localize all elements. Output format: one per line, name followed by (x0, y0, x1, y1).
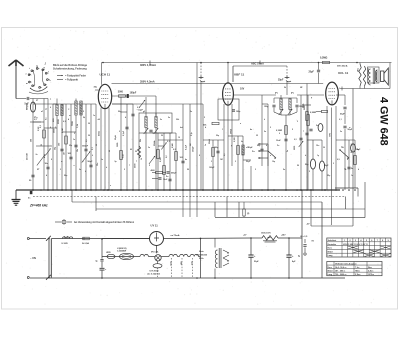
svg-text:5,2km: 5,2km (368, 271, 374, 273)
wire bus right ext (335, 188, 358, 197)
svg-text:50Hz: 50Hz (199, 258, 204, 260)
svg-text:100pF: 100pF (193, 145, 195, 152)
output transformer box (368, 67, 380, 83)
svg-text:0,1µ: 0,1µ (191, 132, 193, 136)
label 360V (102, 61, 358, 67)
heater UCH (169, 254, 177, 266)
wire col x96 (95, 104, 97, 190)
wire grid left UCH (94, 87, 99, 91)
svg-text:(F): (F) (275, 93, 278, 95)
svg-text:0,3M: 0,3M (160, 157, 162, 162)
svg-text:0,5: 0,5 (86, 139, 88, 142)
fuse element (62, 236, 73, 245)
note ZF-Roehren (55, 220, 135, 224)
svg-text:5: 5 (309, 171, 310, 173)
wire choke line (251, 237, 302, 239)
svg-text:0,1µ: 0,1µ (123, 154, 125, 158)
coil L3 (72, 99, 77, 191)
svg-text:0,5M: 0,5M (38, 126, 40, 131)
wire col x48 (45, 99, 50, 191)
wire col x44 (40, 99, 45, 191)
wire speaker bottom line (342, 63, 392, 91)
wire col x190 (189, 104, 191, 217)
svg-text:UY 11: UY 11 (151, 224, 159, 228)
svg-text:~ UN: ~ UN (30, 257, 36, 260)
wire AF top line (233, 63, 287, 83)
resistor 1000 zigzag (363, 66, 368, 86)
resistor at x244 (243, 202, 250, 217)
capacitor 100pF (127, 93, 137, 98)
svg-text:0,3MΩ: 0,3MΩ (310, 112, 316, 114)
svg-text:(F): (F) (291, 93, 294, 95)
svg-text:10: 10 (178, 137, 180, 139)
wire C1 to input (30, 98, 48, 100)
wire col x158 (154, 133, 159, 190)
note text block (53, 64, 88, 82)
wire drop x96 (95, 197, 97, 212)
svg-text:Schaltersteckung, Federung: Schaltersteckung, Federung (53, 68, 87, 71)
svg-text:-2V: -2V (306, 224, 310, 226)
tube U3 UCL11 (326, 82, 339, 105)
wire drop x72 (71, 190, 73, 202)
svg-text:Mittel: Mittel (328, 250, 334, 253)
resistor h 4000 (151, 169, 178, 175)
svg-text:50µF: 50µF (254, 261, 259, 263)
resistor NSF oval (117, 248, 134, 260)
svg-text:UCH 11 UBF 11 UCL 11 UY 11: UCH 11 UBF 11 UCL 11 UY 11 (343, 244, 368, 246)
svg-text:2: 2 (124, 169, 125, 171)
svg-text:1: 1 (248, 147, 249, 149)
wire mains top (30, 236, 150, 241)
transformer secondary (223, 250, 229, 266)
svg-text:3: 3 (60, 169, 61, 171)
svg-text:Mittel: Mittel (328, 270, 333, 273)
wire drop x239 (238, 202, 240, 217)
svg-text:BMA4: BMA4 (26, 103, 29, 110)
svg-text:7: 7 (129, 165, 130, 167)
wire col x127 (123, 104, 129, 190)
svg-text:2: 2 (333, 163, 334, 165)
wire col x262 (257, 95, 264, 166)
wire transformer taps (215, 238, 221, 278)
capacitor 10n mid (159, 178, 169, 181)
wire horiz y104 mid (262, 103, 268, 105)
heater UY (140, 254, 155, 256)
capacitor col x33 (29, 175, 35, 182)
wire col x251 (250, 166, 252, 190)
svg-text:7: 7 (377, 240, 378, 242)
svg-text:0,3: 0,3 (294, 139, 297, 141)
svg-text:10V: 10V (240, 88, 245, 91)
wire antenna to C1 (16, 98, 26, 100)
label 10V (240, 88, 245, 91)
svg-text:1kΩ: 1kΩ (328, 133, 330, 137)
wire horiz x203-218 (203, 139, 224, 141)
wire drop x302 (301, 190, 303, 278)
svg-text:ABC 57mA: ABC 57mA (251, 63, 264, 66)
svg-text:25µ: 25µ (327, 175, 330, 177)
electrolytic 50uF b (319, 140, 329, 190)
svg-text:5000: 5000 (294, 146, 296, 150)
label ZF=468kHz (29, 204, 48, 208)
speaker (381, 68, 389, 85)
svg-text:Kurz: Kurz (328, 267, 332, 269)
wire col x53 (52, 104, 54, 190)
svg-text:2: 2 (83, 161, 84, 163)
wire horiz x158-176 (152, 133, 183, 140)
electrolytic 50uF a (305, 140, 316, 190)
IF2 bottom (274, 112, 297, 190)
wire heater line (102, 256, 140, 258)
wire col x268 (267, 104, 269, 190)
svg-text:50: 50 (161, 135, 163, 137)
svg-text:5: 5 (149, 165, 150, 167)
wire col x133 (131, 104, 134, 190)
wire horiz x115-133 (112, 103, 133, 105)
svg-text:0,1µF: 0,1µF (186, 144, 188, 150)
wire UCL pins (327, 106, 336, 225)
label UBF 11 (234, 73, 245, 77)
svg-text:50kΩ: 50kΩ (209, 139, 211, 144)
wire UY left (102, 238, 150, 240)
antenna (9, 60, 24, 99)
svg-text:= Fußpunkt: = Fußpunkt (65, 79, 78, 82)
svg-text:U (NSF-R): U (NSF-R) (117, 248, 127, 250)
svg-text:0,2: 0,2 (166, 155, 168, 158)
wire horiz x232-243 (228, 135, 243, 137)
svg-text:g2: g2 (143, 111, 145, 113)
svg-text:Si 0,5A: Si 0,5A (82, 242, 89, 245)
component oval antenna coil (26, 102, 36, 112)
wire sub-bus 202 (72, 202, 322, 278)
resistor U oval (106, 252, 115, 259)
svg-text:16,4 - 50,6 m: 16,4 - 50,6 m (335, 266, 347, 269)
coil L2 (58, 104, 63, 190)
svg-text:2: 2 (74, 133, 75, 135)
shield box UBF (218, 99, 239, 120)
svg-text:50: 50 (297, 165, 299, 167)
svg-text:45kΩ: 45kΩ (98, 131, 101, 136)
svg-text:= Farbpunkt Feder: = Farbpunkt Feder (65, 75, 86, 78)
svg-text:100pF: 100pF (130, 93, 137, 95)
sprinkle labels (36, 100, 361, 187)
label +V a (243, 235, 247, 237)
resistor 3000 at UCH (118, 92, 126, 98)
label 45k (98, 131, 101, 136)
coil UBF (242, 136, 254, 190)
svg-text:8: 8 (199, 155, 200, 157)
svg-text:25: 25 (41, 144, 43, 146)
wire col x176 (172, 133, 177, 190)
svg-text:7: 7 (136, 161, 137, 163)
svg-text:4µ: 4µ (298, 255, 300, 258)
IF2 arrows (279, 109, 293, 115)
wire drop x215 (214, 202, 216, 217)
wire horiz UBF left (112, 103, 203, 105)
svg-text:500: 500 (31, 139, 33, 142)
wire horiz y95 to UCL (297, 94, 324, 96)
filter cap C50 (248, 238, 259, 278)
svg-text:0,3M: 0,3M (234, 137, 236, 142)
more bus junctions (40, 189, 356, 191)
wire right link y217 (0, 0, 1, 1)
svg-text:(2): (2) (247, 213, 250, 215)
svg-text:5km: 5km (368, 267, 372, 269)
svg-text:9: 9 (279, 133, 280, 135)
wire horiz y140 (307, 139, 322, 141)
cap UCL top right (305, 129, 312, 135)
svg-text:UCH 11: UCH 11 (100, 72, 111, 76)
wire B+ end (300, 235, 315, 243)
wire col x91 (88, 104, 94, 190)
dial lamp (151, 250, 161, 261)
svg-text:2: 2 (119, 131, 120, 133)
svg-text:bei Verwendung mit Kontakt abg: bei Verwendung mit Kontakt abgeschirmten… (74, 221, 135, 224)
svg-text:100pF: 100pF (209, 167, 215, 169)
svg-text:500pF: 500pF (171, 173, 177, 175)
misc small marks left (34, 117, 78, 159)
wire y95 tail (328, 95, 345, 137)
tube socket pinout diagram (25, 63, 51, 94)
svg-text:0,1: 0,1 (224, 153, 226, 156)
label 4 GW 648 (378, 97, 390, 146)
svg-text:7: 7 (303, 131, 304, 133)
wire B+ top line (102, 63, 391, 89)
paper texture (3, 30, 396, 306)
wire col x71 (68, 104, 73, 190)
switch mains (46, 238, 51, 280)
svg-text:3000: 3000 (118, 92, 124, 94)
wire UBF anode riser (227, 63, 229, 84)
svg-text:0,1: 0,1 (46, 117, 48, 120)
svg-text:a1: a1 (41, 111, 43, 113)
svg-text:65kΩ: 65kΩ (229, 129, 231, 134)
wire UCL to THK (339, 87, 342, 90)
varcap tuning 1 (37, 155, 45, 172)
svg-text:2: 2 (235, 161, 236, 163)
label 0,1uF v (186, 144, 188, 150)
svg-text:30: 30 (88, 135, 90, 137)
svg-text:5µ: 5µ (96, 261, 98, 263)
svg-text:8: 8 (347, 159, 348, 161)
sprinkle labels 3 (31, 117, 361, 173)
svg-text:ca 75mA: ca 75mA (171, 234, 180, 237)
wire UCH pins (101, 108, 109, 191)
svg-text:20: 20 (135, 151, 137, 153)
resistor Si (82, 237, 89, 245)
svg-text:3: 3 (297, 121, 298, 123)
svg-text:5: 5 (366, 240, 367, 242)
svg-text:350V 4,3mA: 350V 4,3mA (140, 80, 155, 84)
svg-text:60: 60 (130, 149, 132, 151)
transformer primary (215, 250, 217, 268)
wire main ground bus (16, 189, 340, 191)
heater UBF (180, 254, 188, 266)
coil THK (351, 63, 362, 189)
label +V b (281, 234, 286, 237)
wire sub-bus 217 (215, 217, 365, 219)
varcap osc (137, 100, 146, 112)
wire col x355 (351, 140, 356, 188)
bus junction dots (32, 189, 326, 191)
wire drop x311 (306, 190, 311, 226)
wire lamp link (161, 256, 169, 258)
wire col x203 (202, 104, 204, 190)
svg-text:5: 5 (83, 111, 84, 113)
svg-text:Lang: Lang (328, 255, 334, 257)
wire horiz y140b (302, 105, 355, 140)
capacitor 50nF b (343, 126, 352, 190)
capacitor at bus x31 (28, 191, 32, 200)
wire col x139 (135, 133, 141, 190)
svg-text:U≈ +1,5: U≈ +1,5 (300, 235, 308, 238)
capacitor UBF1 (214, 140, 220, 190)
svg-text:UBF 11: UBF 11 (234, 73, 245, 77)
svg-text:8: 8 (51, 159, 52, 161)
svg-text:25pF: 25pF (278, 80, 284, 82)
wire col x197 (196, 63, 198, 218)
svg-text:6: 6 (92, 155, 93, 157)
IF1 shield box (139, 113, 172, 133)
svg-text:5: 5 (172, 145, 173, 147)
switch Fu arrows (252, 143, 276, 166)
svg-text:(2x 0,1Ω) kalt: (2x 0,1Ω) kalt (148, 273, 161, 276)
svg-text:ZF=468 kHz: ZF=468 kHz (29, 204, 48, 208)
wire h2 (188, 256, 190, 258)
wire dashed sub-bus (33, 197, 346, 210)
capacitor below UBF (232, 110, 241, 113)
svg-text:1275m: 1275m (368, 274, 374, 276)
svg-text:0,1: 0,1 (351, 143, 353, 146)
wire screen line (112, 83, 324, 85)
svg-text:2: 2 (350, 240, 351, 242)
svg-text:0,1: 0,1 (137, 107, 140, 109)
svg-text:3: 3 (211, 161, 212, 163)
capacitor C1 5nF (25, 97, 30, 106)
svg-text:0,1: 0,1 (167, 141, 170, 143)
heater UCL (190, 254, 198, 266)
svg-text:UCH: UCH (169, 262, 171, 267)
label 25n-187 (27, 153, 29, 160)
svg-text:URΩ: URΩ (106, 252, 111, 254)
wire col x164 (160, 133, 165, 190)
svg-text:50: 50 (96, 144, 98, 146)
svg-text:5: 5 (204, 117, 205, 119)
wire UY right (157, 234, 252, 253)
svg-text:9: 9 (154, 141, 155, 143)
resistor 1M UCL (304, 95, 328, 190)
wire dashed drop UBF (278, 66, 291, 95)
svg-text:+24V: +24V (281, 234, 286, 237)
resistor UBF2 (234, 136, 240, 190)
svg-text:Kontakte: Kontakte (328, 243, 337, 246)
wire right link y226 (311, 188, 353, 226)
wire UBF pins (224, 104, 232, 190)
svg-text:3: 3 (255, 169, 256, 171)
wire col x121 (117, 97, 122, 190)
IF2 coil b (289, 98, 291, 115)
resistor UBF1 (209, 139, 215, 190)
svg-text:U 50Ω: U 50Ω (62, 243, 68, 245)
svg-text:5: 5 (292, 129, 293, 131)
svg-text:5MΩ: 5MΩ (304, 105, 306, 110)
wire drop x102 (96, 239, 108, 278)
ground symbol (12, 200, 21, 206)
svg-text:UCL 11: UCL 11 (338, 71, 348, 75)
IF2 top wires (274, 93, 297, 99)
svg-text:730 - 2000 m: 730 - 2000 m (335, 274, 347, 276)
wire bus left drop (15, 190, 17, 199)
svg-text:e: e (110, 185, 111, 187)
label mains voltage (30, 257, 36, 260)
choke 1500 (261, 233, 278, 243)
mains plug (27, 238, 29, 279)
IF2 caps (264, 98, 304, 112)
table wave ranges (327, 262, 382, 277)
svg-text:780m: 780m (355, 271, 360, 273)
svg-text:4000: 4000 (151, 169, 155, 172)
svg-text:50: 50 (187, 169, 189, 171)
svg-text:0,1: 0,1 (92, 147, 94, 150)
svg-text:MV 0,2A: MV 0,2A (151, 250, 159, 253)
svg-text:25n/187: 25n/187 (27, 153, 29, 160)
svg-text:Wellenbereichs-Angaben: Wellenbereichs-Angaben (335, 262, 356, 265)
svg-text:THK: THK (356, 68, 358, 73)
filter cap C8 (286, 238, 296, 278)
sprinkle labels 2 (33, 87, 351, 160)
svg-text:187 - 580 m: 187 - 580 m (335, 271, 346, 273)
wire horiz join2 (30, 122, 52, 146)
coil L1 (53, 99, 58, 191)
svg-text:50µF: 50µF (348, 129, 353, 131)
svg-text:50pF: 50pF (88, 161, 94, 163)
svg-text:1-5kΩ/4W: 1-5kΩ/4W (117, 250, 126, 253)
wire col x349 (347, 140, 354, 188)
svg-text:50µA: 50µA (114, 135, 117, 140)
svg-text:1: 1 (222, 129, 223, 131)
wire horiz join1 (33, 103, 96, 105)
svg-text:8: 8 (382, 240, 383, 242)
resistor 50k UBF horiz (203, 122, 219, 126)
label UCH 11 (100, 72, 111, 76)
svg-text:1500-1075: 1500-1075 (261, 233, 271, 235)
svg-text:4 GW 648: 4 GW 648 (378, 97, 390, 146)
cap small right (298, 245, 307, 258)
svg-text:0,5: 0,5 (337, 159, 340, 161)
svg-text:0,5: 0,5 (34, 119, 37, 121)
svg-text:9: 9 (388, 240, 389, 242)
svg-text:Kurz: Kurz (328, 248, 332, 250)
svg-text:5000: 5000 (54, 129, 56, 133)
svg-text:2: 2 (270, 127, 271, 129)
svg-text:0,2: 0,2 (173, 149, 176, 151)
svg-text:10nF: 10nF (276, 140, 281, 142)
wire UBF anode to IF2 (233, 94, 276, 96)
dots bottom (101, 237, 290, 279)
svg-text:0,1MΩ: 0,1MΩ (276, 130, 282, 132)
svg-text:1M: 1M (220, 159, 223, 161)
svg-text:25pF: 25pF (309, 72, 315, 74)
table switch positions (327, 238, 391, 257)
resistor 0,3M in top line (320, 57, 330, 64)
wire horiz small (152, 173, 166, 179)
tube U1 UCH11 (98, 84, 111, 108)
heater ground dashes (172, 258, 193, 277)
IF1 caps (144, 128, 159, 134)
label 65k vertical (229, 129, 231, 134)
wire col x307 (303, 84, 309, 191)
capacitor 50nF a (340, 95, 347, 124)
